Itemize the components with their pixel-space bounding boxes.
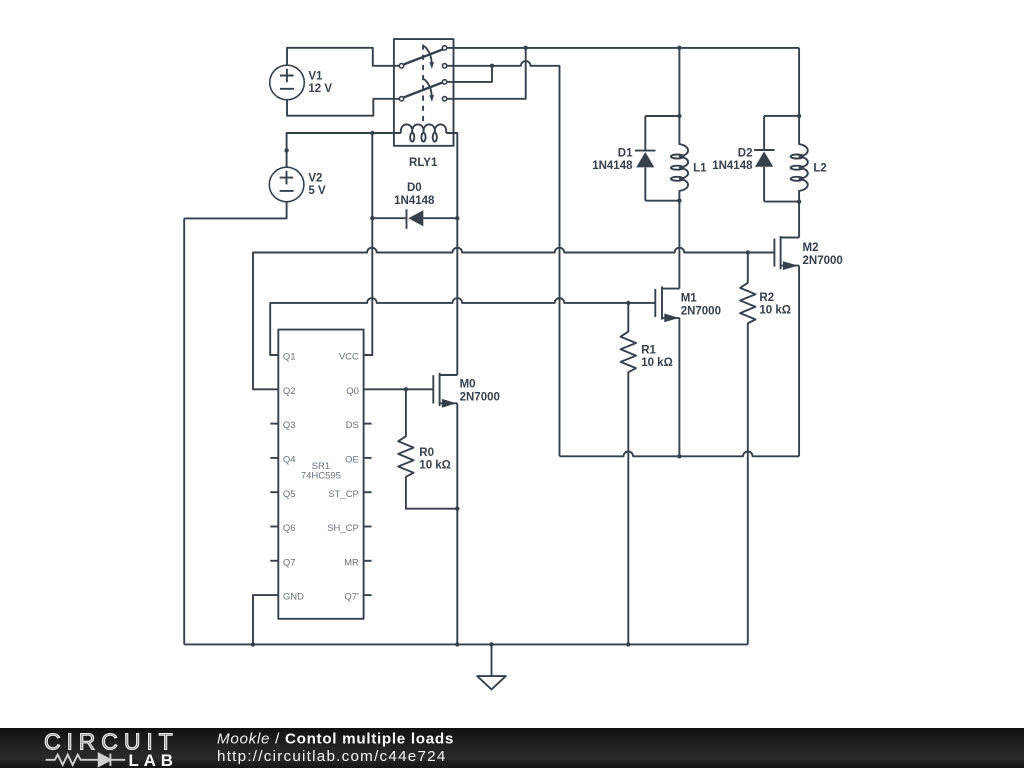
inductor L1 [671, 48, 707, 201]
wire T4R to top rail riser [447, 48, 526, 99]
svg-text:Q3: Q3 [283, 420, 296, 431]
svg-text:ST_CP: ST_CP [328, 489, 359, 500]
wire sources row [560, 451, 800, 456]
transistor M0 2N7000 [433, 373, 500, 408]
svg-text:DS: DS [346, 420, 359, 431]
svg-text:Q2: Q2 [283, 386, 296, 397]
svg-text:Q1: Q1 [283, 352, 296, 363]
relay terminal T1L [399, 64, 403, 68]
wire switched line to M1-M2 sources column [492, 61, 560, 456]
node D0 cathode-side [455, 216, 459, 220]
wire VCC riser (coil tap to VCC pin) [364, 133, 373, 355]
wire L2 bottom to M2 drain [798, 202, 800, 238]
svg-text:2N7000: 2N7000 [803, 255, 843, 267]
pin Q7' [344, 592, 371, 603]
svg-text:D2: D2 [738, 148, 753, 160]
wire V2 minus to left rail [184, 202, 286, 219]
pin Q3 [270, 420, 295, 431]
node T2R-T3R tie [490, 64, 494, 68]
svg-text:http://circuitlab.com/c44e724: http://circuitlab.com/c44e724 [217, 748, 447, 765]
wire T3R link [447, 66, 492, 82]
relay RLY1 coil [401, 124, 446, 133]
svg-text:SH_CP: SH_CP [327, 523, 359, 534]
CircuitLab logo resistor-diode glyph [46, 754, 126, 766]
footer band [0, 728, 1024, 768]
svg-text:1N4148: 1N4148 [712, 160, 753, 172]
node L2 bottom [797, 199, 801, 203]
relay terminal T1R [442, 46, 446, 50]
svg-text:10 kΩ: 10 kΩ [641, 357, 673, 369]
relay RLY1 dashed link [422, 45, 424, 123]
wire Q0 to M0 gate [364, 388, 434, 390]
relay RLY1 motion arrow 2 [424, 79, 434, 102]
svg-text:10 kΩ: 10 kΩ [759, 305, 791, 317]
pin SH_CP [327, 523, 371, 534]
svg-text:Q6: Q6 [283, 523, 296, 534]
pin ST_CP [328, 489, 371, 500]
node rail1 to R2 [746, 250, 750, 254]
wire V2 plus up to coil feed [287, 133, 401, 167]
relay RLY1 coil loop 2 [421, 133, 425, 142]
wire V1 plus to relay T1L [287, 48, 399, 66]
relay terminal T2L [399, 97, 403, 101]
node L1 top [677, 114, 681, 118]
relay terminal T2R [442, 64, 446, 68]
svg-text:OE: OE [345, 455, 359, 466]
relay RLY1 motion arrow 1 [424, 46, 434, 69]
svg-text:V2: V2 [308, 172, 322, 184]
relay RLY1 box [394, 39, 454, 146]
svg-text:1N4148: 1N4148 [394, 195, 435, 207]
voltage source V2 [269, 167, 326, 202]
pin Q6 [270, 523, 295, 534]
svg-text:2N7000: 2N7000 [681, 305, 721, 317]
svg-text:12 V: 12 V [308, 83, 332, 95]
svg-text:MR: MR [344, 557, 359, 568]
node R0 to M0 source [455, 507, 459, 511]
wire T2R to node [447, 65, 492, 67]
pin Q4 [270, 455, 295, 466]
svg-text:RLY1: RLY1 [409, 157, 438, 169]
node ground stem [489, 642, 493, 646]
svg-text:M2: M2 [803, 242, 819, 254]
svg-text:Q7': Q7' [344, 592, 359, 603]
svg-text:Q4: Q4 [283, 455, 296, 466]
svg-text:L1: L1 [693, 163, 707, 175]
resistor R2 [740, 253, 791, 645]
diode D2 [712, 116, 799, 202]
node top rail to L1 [677, 46, 681, 50]
voltage source V1 [270, 65, 333, 100]
relay terminal T3R [442, 80, 446, 84]
relay RLY1 armature 2 [404, 82, 443, 97]
svg-text:Q5: Q5 [283, 489, 296, 500]
node L1 bottom [677, 199, 681, 203]
pin DS [346, 420, 372, 431]
svg-text:D1: D1 [618, 148, 633, 160]
pin Q5 [270, 489, 295, 500]
ground symbol [477, 644, 506, 689]
svg-text:R1: R1 [641, 344, 656, 356]
svg-text:74HC595: 74HC595 [301, 471, 341, 482]
svg-text:5 V: 5 V [308, 185, 326, 197]
wire bus rail 2 (Q1 to M1 gate) [270, 298, 655, 355]
svg-text:Mookle / Contol multiple loads: Mookle / Contol multiple loads [217, 730, 454, 747]
wire bottom ground rail [184, 643, 748, 645]
svg-text:2N7000: 2N7000 [460, 391, 500, 403]
node rail2 to R1 [626, 301, 630, 305]
node L2 top [797, 114, 801, 118]
diode D1 [592, 116, 679, 201]
pin OE [345, 455, 371, 466]
resistor R1 [621, 303, 673, 645]
wire M0 source down to bottom rail [456, 403, 458, 644]
svg-text:M1: M1 [681, 293, 698, 305]
svg-text:L2: L2 [813, 163, 826, 175]
IC SR1 name [301, 461, 341, 482]
diode D0 [372, 182, 457, 229]
svg-text:GND: GND [283, 592, 304, 603]
svg-text:R2: R2 [759, 292, 774, 304]
svg-text:D0: D0 [407, 182, 422, 194]
wire V1 minus to relay T2L [287, 99, 399, 116]
inductor L2 [791, 48, 827, 202]
node M1 source on sources row [677, 454, 681, 458]
svg-text:Q7: Q7 [283, 557, 296, 568]
pin Q7 [270, 557, 295, 568]
svg-text:R0: R0 [419, 447, 434, 459]
transistor M2 2N7000 [774, 236, 842, 270]
transistor M1 2N7000 [655, 286, 721, 322]
wire M1 source down [678, 318, 680, 456]
wire top rail 12V [447, 47, 799, 49]
svg-text:LAB: LAB [129, 751, 178, 768]
wire coil right down to D0 and M0 drain [446, 133, 457, 375]
wire GND pin to bottom rail [253, 595, 278, 644]
svg-text:1N4148: 1N4148 [592, 160, 633, 172]
node top rail to T4 riser [524, 46, 528, 50]
wire L1 bottom to M1 drain [678, 201, 680, 289]
wire M2 source down [798, 266, 800, 457]
IC SR1 74HC595 box [278, 330, 363, 619]
svg-text:Q0: Q0 [346, 386, 359, 397]
wire bus rail 1 (Q2 to M2 gate) [253, 248, 774, 390]
svg-text:M0: M0 [460, 379, 476, 391]
node coil-left / VCC tap [370, 131, 374, 135]
node R1 bottom on rail [626, 642, 630, 646]
resistor R0 [398, 389, 457, 508]
node D0 anode [370, 216, 374, 220]
relay RLY1 coil loop 1 [410, 133, 414, 142]
node GND rail left [251, 642, 255, 646]
svg-text:V1: V1 [308, 71, 323, 83]
node M0 source on rail [455, 642, 459, 646]
pin MR [344, 557, 371, 568]
node V2 plus junction [284, 148, 288, 152]
svg-text:VCC: VCC [339, 352, 359, 363]
relay RLY1 coil loop 3 [433, 133, 437, 142]
relay terminal T4R [442, 97, 446, 101]
wire left rail [183, 218, 185, 644]
svg-text:10 kΩ: 10 kΩ [419, 460, 451, 472]
relay RLY1 armature 1 [404, 49, 443, 64]
node Q0-R0 tap [404, 387, 408, 391]
